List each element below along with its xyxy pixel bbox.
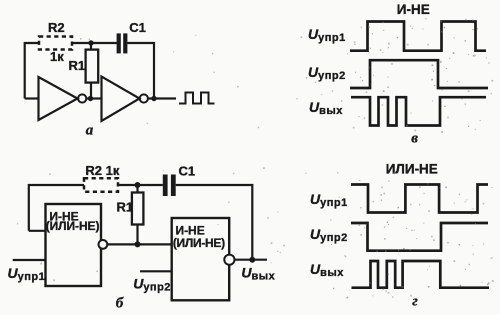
- svg-text:R2: R2: [48, 20, 65, 35]
- node output junction (circuit b): [249, 257, 255, 263]
- resistor R1 (circuit b): [132, 185, 144, 244]
- waveform Uupr2 (diagram g): [351, 223, 488, 251]
- gate2 output bubble: [224, 255, 234, 265]
- wire gate2 lower input Uupr2: [140, 270, 172, 272]
- svg-text:б: б: [116, 295, 124, 311]
- waveform Uvyh (diagram v): [351, 97, 486, 125]
- node inverter2 output (circuit a): [151, 96, 156, 101]
- node R1 bottom junction (circuit b): [135, 241, 141, 247]
- svg-text:ИЛИ-НЕ: ИЛИ-НЕ: [386, 162, 438, 177]
- waveform Uupr1 (diagram v): [350, 22, 486, 51]
- svg-text:(ИЛИ-НЕ): (ИЛИ-НЕ): [46, 219, 100, 233]
- resistor R1 (circuit a): [86, 43, 99, 99]
- svg-text:C1: C1: [179, 164, 196, 179]
- op-amp U2 inverter 2 (circuit a): [102, 77, 148, 122]
- svg-text:1к: 1к: [50, 49, 64, 64]
- wire output Uvyh: [234, 259, 267, 261]
- square wave symbol: [179, 93, 215, 104]
- capacitor C1 (circuit b): [163, 175, 176, 197]
- resistor R2 (dashed, circuit a): [39, 37, 72, 50]
- wire C1 to output node (circuit b): [176, 185, 253, 260]
- wire gate1 lower input Uupr1: [13, 259, 46, 261]
- wire gate1 to gate2: [107, 243, 171, 245]
- svg-text:в: в: [411, 131, 418, 147]
- waveform Uupr2 (diagram v): [350, 60, 488, 88]
- gate U2 NAND (circuit b): [172, 218, 230, 300]
- wire feedback left vertical (circuit b): [29, 185, 84, 231]
- svg-text:R2 1к: R2 1к: [85, 163, 119, 178]
- resistor R2 (dashed, circuit b): [84, 178, 118, 191]
- wire inverter1 to inverter2: [86, 97, 101, 99]
- svg-text:а: а: [86, 122, 94, 138]
- gate1 output bubble: [99, 240, 108, 249]
- svg-text:г: г: [412, 294, 418, 310]
- svg-text:R1: R1: [69, 58, 86, 73]
- wire gate1 upper input: [29, 230, 46, 232]
- waveform Uupr1 (diagram g): [351, 185, 488, 213]
- waveform Uvyh (diagram g): [352, 261, 490, 288]
- wire R2 to C1 (circuit b): [118, 184, 163, 186]
- svg-text:C1: C1: [129, 20, 146, 35]
- wire C1 to output node (circuit a): [127, 43, 154, 99]
- node R1 top (circuit a): [88, 40, 93, 45]
- wire output (circuit a): [148, 97, 176, 99]
- capacitor C1 (circuit a): [117, 33, 128, 53]
- svg-text:R1: R1: [117, 200, 134, 215]
- gate U1 NAND (circuit b): [46, 204, 102, 286]
- wire R2 to C1 (circuit a): [72, 42, 117, 44]
- svg-text:И-НЕ: И-НЕ: [397, 2, 430, 17]
- op-amp U1 inverter 1 (circuit a): [25, 77, 87, 120]
- svg-text:(ИЛИ-НЕ): (ИЛИ-НЕ): [173, 236, 225, 250]
- wire feedback left vertical (circuit a): [25, 43, 39, 99]
- node inverter1 output (circuit a): [88, 96, 93, 101]
- node R1 top (circuit b): [135, 182, 141, 188]
